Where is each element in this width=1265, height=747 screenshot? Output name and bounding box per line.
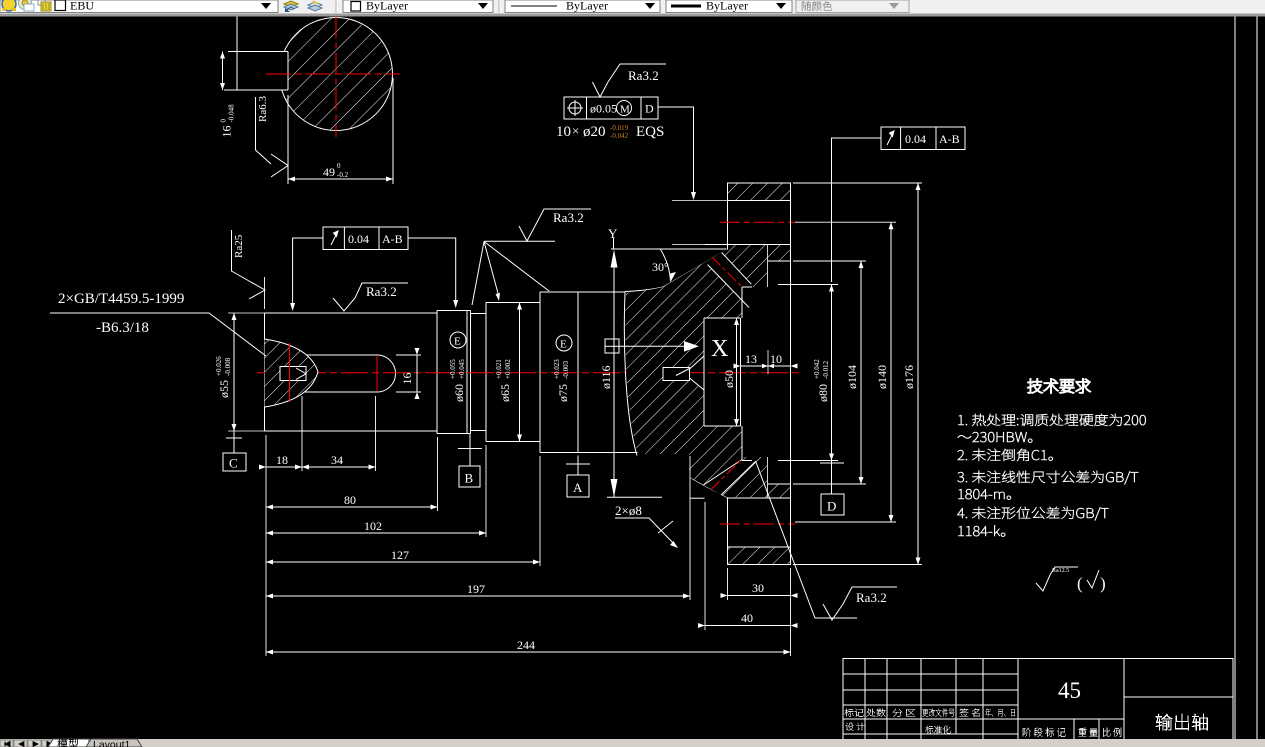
- svg-text:30: 30: [752, 581, 764, 595]
- drawing frame border lines: [1235, 17, 1257, 747]
- technical requirements body: [958, 414, 1145, 426]
- svg-text:ø55: ø55: [217, 380, 231, 398]
- upper chamfer hole red axis: [712, 257, 742, 287]
- svg-text:): ): [1100, 574, 1106, 593]
- surface roughness Ra25 left end: [232, 230, 266, 309]
- svg-text:D: D: [645, 102, 654, 116]
- svg-text:197: 197: [467, 582, 485, 596]
- svg-text:+0.045: +0.045: [458, 359, 466, 379]
- svg-text:E: E: [560, 339, 567, 351]
- datum B: [458, 434, 482, 487]
- note 10xø20 EQS: [556, 123, 664, 140]
- svg-text:0: 0: [220, 119, 228, 123]
- dimension 244: [266, 638, 791, 655]
- svg-text:16: 16: [220, 126, 234, 138]
- dimension 80: [266, 493, 438, 510]
- svg-text:C: C: [229, 456, 238, 471]
- flange left arc face: [624, 292, 637, 456]
- svg-text:-B6.3/18: -B6.3/18: [96, 320, 149, 336]
- svg-text:2×ø8: 2×ø8: [615, 503, 642, 518]
- svg-text:-0.2: -0.2: [337, 171, 349, 179]
- plot style combo disabled: [796, 0, 909, 13]
- center hole at right shaft end: [663, 356, 704, 390]
- svg-text:ByLayer: ByLayer: [366, 0, 408, 13]
- lower chamfer hole red axis: [711, 460, 742, 490]
- extension lines bottom dimension chain: [266, 396, 791, 656]
- svg-text:49: 49: [323, 165, 335, 179]
- dimension ø55 with tolerance: [215, 313, 265, 431]
- model tab: [48, 739, 89, 747]
- surface roughness Ra6.3 (section view): [256, 96, 289, 177]
- svg-text:A-B: A-B: [939, 132, 960, 146]
- svg-text:30°: 30°: [652, 260, 669, 274]
- svg-text:ø75: ø75: [556, 384, 570, 402]
- section view hatched circle: [280, 18, 393, 131]
- svg-text:+0.055: +0.055: [449, 359, 457, 379]
- layer color swatch: [55, 0, 66, 11]
- svg-text:D: D: [827, 499, 836, 514]
- datum A: [566, 456, 590, 498]
- toolbar background: [0, 0, 1265, 14]
- dimension ø116: [599, 249, 727, 497]
- layer lock icon: [38, 0, 45, 5]
- dimension ø80 with tolerance: [813, 285, 834, 461]
- bore ø50 rectangle: [704, 318, 741, 426]
- separator: [335, 0, 337, 13]
- upper bolt hole ø20: [672, 183, 791, 250]
- lower bolt hole ø20: [728, 498, 791, 565]
- feature control frame position ø0.05 M D: [564, 97, 696, 200]
- svg-text:16: 16: [400, 373, 414, 385]
- svg-text:ø50: ø50: [722, 370, 736, 388]
- svg-text:M: M: [620, 104, 630, 116]
- svg-text:(: (: [1077, 574, 1083, 593]
- svg-text:+0.026: +0.026: [215, 356, 223, 376]
- tab nav buttons: [0, 740, 55, 747]
- dimension ø176: [902, 183, 921, 565]
- svg-text:45: 45: [1058, 678, 1081, 703]
- dimension 102: [266, 519, 486, 536]
- svg-text:-0.008: -0.008: [224, 357, 232, 376]
- svg-text:0.04: 0.04: [905, 132, 926, 146]
- dimension 13 and 10: [734, 350, 798, 374]
- dimension 127: [266, 548, 540, 565]
- general roughness note: [1036, 567, 1106, 593]
- svg-text:ø104: ø104: [845, 365, 859, 389]
- svg-text:ø0.05: ø0.05: [590, 102, 617, 116]
- angle dimension 30 degrees: [652, 250, 676, 282]
- svg-text:Ra3.2: Ra3.2: [366, 284, 397, 299]
- layer tool button 1: [284, 1, 298, 12]
- svg-text:ø116: ø116: [599, 365, 613, 389]
- datum target square with arrow: [605, 339, 699, 353]
- svg-text:ø20: ø20: [583, 124, 606, 140]
- upper bolt hole red axis: [720, 221, 795, 223]
- svg-text:-0.012: -0.012: [822, 360, 830, 379]
- svg-text:ø80: ø80: [816, 384, 830, 402]
- flange upper fillet curve: [625, 250, 728, 292]
- title block grid: [843, 659, 1233, 747]
- main red centerline: [257, 372, 800, 374]
- section view keyway rectangle: [224, 17, 288, 91]
- svg-text:40: 40: [741, 611, 753, 625]
- main shaft outline: [265, 292, 691, 453]
- dimension ø50 bore: [722, 318, 739, 426]
- layer tool button 2: [308, 1, 322, 11]
- svg-text:ByLayer: ByLayer: [566, 0, 608, 13]
- svg-text:-0.019: -0.019: [610, 124, 629, 132]
- flange lower fillet curve: [689, 456, 691, 478]
- section view red centerlines: [266, 17, 400, 138]
- svg-text:+0.002: +0.002: [504, 359, 512, 379]
- layer combo box: [0, 0, 278, 13]
- svg-text:10: 10: [556, 124, 571, 140]
- surface roughness Ra3.2 bottom right: [756, 461, 898, 620]
- tolerance label ø60 with E: [449, 332, 466, 402]
- svg-text:ø65: ø65: [498, 384, 512, 402]
- flange hatched body: [625, 245, 790, 498]
- svg-text:X: X: [711, 336, 728, 362]
- dimension ø104: [845, 261, 864, 484]
- svg-text:Ra6.3: Ra6.3: [257, 96, 269, 122]
- datum D: [820, 461, 844, 515]
- svg-text:Ra3.2: Ra3.2: [628, 68, 659, 83]
- dimension 16 keyway width (section view): [220, 52, 238, 138]
- svg-text:Ra3.2: Ra3.2: [553, 210, 584, 225]
- dimension ø140: [875, 222, 894, 522]
- svg-text:2×GB/T4459.5-1999: 2×GB/T4459.5-1999: [58, 291, 184, 307]
- svg-text:B: B: [465, 471, 474, 486]
- technical requirements title: [1028, 379, 1091, 393]
- svg-text:80: 80: [344, 493, 356, 507]
- flange right face and hub: [728, 183, 791, 565]
- flange bottom rim hatched block: [728, 547, 791, 565]
- svg-text:34: 34: [331, 453, 343, 467]
- layer combo dropdown arrow: [261, 3, 271, 9]
- dimension ø65 with tolerance: [495, 303, 522, 442]
- svg-text:+0.023: +0.023: [553, 359, 561, 379]
- center hole callout GB/T4459.5: [50, 291, 266, 356]
- svg-text:13: 13: [745, 352, 757, 366]
- svg-text:+0.021: +0.021: [495, 359, 503, 379]
- layer status icon bulb: [2, 0, 16, 11]
- svg-text:+0.042: +0.042: [813, 359, 821, 379]
- tolerance label ø75 with E: [553, 335, 572, 402]
- surface roughness Ra3.2 above position frame: [593, 64, 667, 97]
- svg-text:Ra12.5: Ra12.5: [1052, 568, 1069, 574]
- svg-text:0.04: 0.04: [348, 232, 369, 246]
- dimension 40: [698, 502, 798, 630]
- surface roughness Ra3.2 left (keyway shaft): [333, 283, 408, 311]
- datum C: [223, 431, 246, 471]
- svg-text:EBU: EBU: [70, 0, 94, 13]
- svg-text:ByLayer: ByLayer: [706, 0, 748, 13]
- svg-text:E: E: [454, 336, 461, 348]
- svg-text:-0.042: -0.042: [610, 132, 629, 140]
- dimension 49 (section view): [288, 78, 393, 184]
- upper chamfer hole band 2xø8: [708, 253, 752, 319]
- keyway slot red center marks: [303, 356, 377, 391]
- svg-text:ø176: ø176: [902, 365, 916, 389]
- layout1 tab: [86, 739, 142, 747]
- svg-text:10: 10: [770, 352, 782, 366]
- svg-text:ø140: ø140: [875, 365, 889, 389]
- title block row labels: [844, 709, 863, 717]
- dimension 197: [266, 582, 690, 599]
- note 2xø8: [615, 503, 678, 548]
- svg-text:Layout1: Layout1: [93, 739, 131, 747]
- dimension 18: [259, 453, 302, 470]
- linetype combo box: [505, 0, 660, 13]
- svg-text:244: 244: [517, 638, 535, 652]
- dimension 30: [721, 568, 798, 600]
- feature control frame runout 0.04 A-B right: [832, 127, 966, 282]
- svg-text:A: A: [573, 480, 583, 495]
- color combo box: [343, 0, 493, 13]
- svg-text:0: 0: [337, 162, 341, 170]
- svg-text:EQS: EQS: [636, 124, 664, 140]
- surface roughness Ra3.2 middle: [472, 209, 591, 305]
- svg-text:A-B: A-B: [382, 232, 403, 246]
- svg-text:127: 127: [391, 548, 409, 562]
- dimension 34: [302, 453, 376, 470]
- svg-text:Ra25: Ra25: [233, 234, 245, 258]
- keyway slot plan view: [285, 355, 396, 392]
- broken-out section at left shaft end: [265, 339, 319, 407]
- tab bar background: [0, 739, 1265, 747]
- title block bottom row labels: [1023, 728, 1066, 737]
- svg-text:18: 18: [276, 453, 288, 467]
- part name 输出轴: [1156, 714, 1208, 730]
- red center mark of center hole (left end): [289, 343, 291, 402]
- lower chamfer hole band 2xø8: [690, 426, 756, 498]
- lower bolt hole red axis: [720, 523, 795, 525]
- svg-text:-0.048: -0.048: [228, 104, 236, 123]
- dimension 16 keyway plan: [396, 348, 421, 399]
- extension lines right diameter dims: [778, 183, 922, 565]
- svg-text:-0.003: -0.003: [562, 360, 570, 379]
- svg-text:×: ×: [572, 123, 579, 138]
- flange top rim hatched block: [728, 183, 791, 201]
- feature control frame runout 0.04 A-B left: [290, 227, 458, 311]
- svg-text:ø60: ø60: [452, 384, 466, 402]
- svg-text:102: 102: [364, 519, 382, 533]
- layer freeze icon sun: [19, 0, 32, 10]
- separator: [498, 0, 500, 13]
- lineweight combo box: [666, 0, 792, 13]
- svg-text:Ra3.2: Ra3.2: [856, 590, 887, 605]
